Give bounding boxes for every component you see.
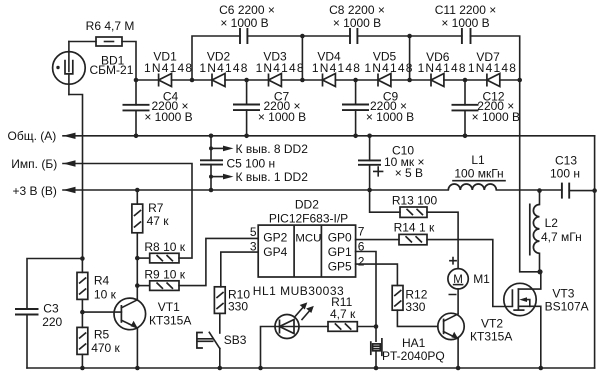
svg-text:330: 330 — [228, 300, 248, 314]
capacitor C7 — [233, 80, 260, 136]
resistor R8 — [137, 253, 179, 263]
svg-text:× 1000 В: × 1000 В — [472, 110, 520, 124]
resistor R11 — [299, 322, 376, 332]
resistor R14 — [399, 234, 512, 306]
wire R6 right to node0 — [122, 42, 136, 81]
svg-text:R14 1 к: R14 1 к — [394, 221, 435, 235]
svg-text:1N4148: 1N4148 — [468, 61, 517, 75]
svg-text:47 к: 47 к — [147, 214, 170, 228]
capacitor C5 — [200, 136, 223, 190]
svg-text:1N4148: 1N4148 — [312, 61, 361, 75]
svg-text:C11 2200 ×: C11 2200 × — [435, 3, 497, 17]
svg-text:1N4148: 1N4148 — [418, 61, 467, 75]
svg-text:СБМ-21: СБМ-21 — [90, 63, 134, 77]
svg-text:R4: R4 — [94, 274, 110, 288]
svg-text:3: 3 — [250, 239, 257, 253]
svg-text:470 к: 470 к — [91, 341, 120, 355]
wire tube cathode down left column — [69, 95, 83, 259]
svg-text:× 1000 В: × 1000 В — [258, 110, 306, 124]
svg-text:К выв. 1 DD2: К выв. 1 DD2 — [236, 170, 309, 184]
node V bus wire — [63, 189, 595, 192]
diode VD3 — [269, 74, 282, 87]
svg-text:L1: L1 — [471, 153, 485, 167]
diode VD4 — [323, 74, 336, 87]
capacitor C12 — [452, 80, 479, 136]
inductor L1 — [448, 184, 496, 190]
svg-text:GP0: GP0 — [328, 230, 352, 244]
svg-text:10 к: 10 к — [94, 288, 117, 302]
svg-text:100 мкГн: 100 мкГн — [454, 167, 503, 181]
wire pin3 GP4 to R10 — [221, 252, 258, 287]
svg-text:× 1000 В: × 1000 В — [441, 16, 489, 30]
svg-text:× 5 В: × 5 В — [395, 166, 423, 180]
svg-text:R6 4,7 М: R6 4,7 М — [86, 19, 135, 33]
motor M1 — [448, 258, 468, 314]
diode VD7 — [487, 74, 500, 87]
svg-text:SB3: SB3 — [224, 333, 247, 347]
led HL1 — [275, 302, 314, 338]
svg-text:VT3: VT3 — [552, 287, 574, 301]
capacitor C4 — [123, 80, 150, 136]
capacitor C8 — [350, 28, 357, 44]
diode VD6 — [431, 74, 444, 87]
svg-text:VT2: VT2 — [481, 317, 503, 331]
mosfet VT3 — [504, 272, 541, 368]
svg-text:DD2: DD2 — [295, 197, 319, 211]
chip DD2 — [258, 225, 355, 277]
svg-text:1N4148: 1N4148 — [199, 61, 248, 75]
capacitor C11 — [462, 28, 471, 44]
inductor L2 — [530, 191, 540, 272]
svg-text:R8 10 к: R8 10 к — [144, 240, 185, 254]
svg-text:R7: R7 — [148, 201, 164, 215]
arrow bus A — [63, 133, 76, 139]
svg-text:C3: C3 — [43, 302, 59, 316]
wire right ground column — [594, 136, 596, 368]
svg-text:M1: M1 — [473, 272, 490, 286]
capacitor C13 — [562, 183, 569, 199]
svg-text:5: 5 — [250, 225, 257, 239]
capacitor C3 — [15, 309, 39, 315]
wire top multiplier rail — [192, 36, 540, 272]
svg-text:К выв. 8 DD2: К выв. 8 DD2 — [236, 142, 309, 156]
diode VD2 — [212, 74, 225, 87]
svg-text:HA1: HA1 — [402, 336, 426, 350]
switch SB3 — [197, 332, 220, 368]
capacitor C6 — [240, 28, 247, 44]
svg-text:BS107A: BS107A — [545, 300, 589, 314]
wire multiplier chain — [136, 79, 520, 81]
svg-text:КТ315А: КТ315А — [470, 330, 512, 344]
svg-text:2: 2 — [358, 254, 365, 268]
wire R6 left to tube anode — [69, 41, 96, 43]
svg-text:PIC12F683-I/P: PIC12F683-I/P — [269, 212, 348, 226]
node B bus wire — [63, 164, 192, 259]
svg-text:× 1000 В: × 1000 В — [144, 110, 192, 124]
transistor VT2 — [438, 313, 464, 368]
svg-text:4,7 мГн: 4,7 мГн — [541, 230, 582, 244]
resistor R4 — [77, 259, 88, 313]
svg-text:Общ. (А): Общ. (А) — [8, 129, 57, 143]
wire V bus to R13 — [370, 190, 400, 212]
svg-text:C8 2200 ×: C8 2200 × — [329, 3, 385, 17]
svg-text:R13 100: R13 100 — [392, 193, 438, 207]
resistor R13 — [400, 207, 458, 269]
svg-text:GP5: GP5 — [328, 259, 352, 273]
svg-text:1N4148: 1N4148 — [364, 61, 413, 75]
wire tap to pin 8 DD2 — [211, 146, 234, 152]
resistor R7 — [132, 190, 143, 300]
diode VD1 — [159, 74, 172, 87]
svg-text:Имп. (Б): Имп. (Б) — [11, 157, 57, 171]
svg-text:1N4148: 1N4148 — [256, 61, 305, 75]
capacitor C9 — [342, 80, 369, 136]
resistor R6 — [96, 37, 122, 46]
svg-text:R5: R5 — [94, 328, 110, 342]
resistor R9 — [137, 238, 258, 290]
svg-text:1N4148: 1N4148 — [144, 61, 193, 75]
svg-text:КТ315А: КТ315А — [149, 314, 191, 328]
wire pin2 GP5 to R12 — [356, 264, 398, 285]
wire bottom rail — [27, 367, 595, 369]
svg-text:C5 100 н: C5 100 н — [227, 156, 276, 170]
svg-text:220: 220 — [42, 315, 62, 329]
wire pin6 GP1 column — [258, 238, 376, 341]
wire C3 branch — [27, 259, 82, 369]
svg-text:4,7 к: 4,7 к — [330, 307, 356, 321]
geiger tube BD1 — [53, 42, 86, 95]
svg-text:VT1: VT1 — [158, 300, 180, 314]
svg-text:C6 2200 ×: C6 2200 × — [219, 3, 275, 17]
transistor VT1 — [82, 298, 145, 368]
svg-text:330: 330 — [405, 300, 425, 314]
arrow bus Б — [63, 160, 76, 166]
svg-text:GP4: GP4 — [263, 245, 287, 259]
svg-text:PT-2040PQ: PT-2040PQ — [382, 349, 445, 363]
node A bus wire — [63, 135, 595, 137]
resistor R5 — [77, 312, 88, 368]
wire tap to pin 1 DD2 — [211, 174, 234, 180]
svg-text:MCU: MCU — [295, 232, 321, 244]
svg-text:GP1: GP1 — [328, 245, 352, 259]
diode VD5 — [378, 74, 391, 87]
resistor R10 — [214, 287, 225, 333]
svg-text:× 1000 В: × 1000 В — [333, 16, 381, 30]
wire pin7 GP0 to R14 — [356, 239, 399, 241]
svg-text:7: 7 — [358, 225, 365, 239]
svg-text:C13: C13 — [555, 154, 577, 168]
svg-text:+3 В (В): +3 В (В) — [13, 184, 57, 198]
svg-text:GP2: GP2 — [263, 230, 287, 244]
svg-text:R9 10 к: R9 10 к — [144, 267, 185, 281]
svg-text:L2: L2 — [545, 216, 559, 230]
svg-text:× 1000 В: × 1000 В — [220, 16, 268, 30]
arrow bus +3V — [63, 187, 76, 193]
resistor R12 — [392, 286, 438, 327]
buzzer HA1 — [371, 338, 382, 368]
wire LED cathode to ground — [261, 327, 276, 369]
svg-text:100 н: 100 н — [550, 167, 580, 181]
svg-text:× 1000 В: × 1000 В — [366, 110, 414, 124]
capacitor C10 — [358, 136, 383, 190]
